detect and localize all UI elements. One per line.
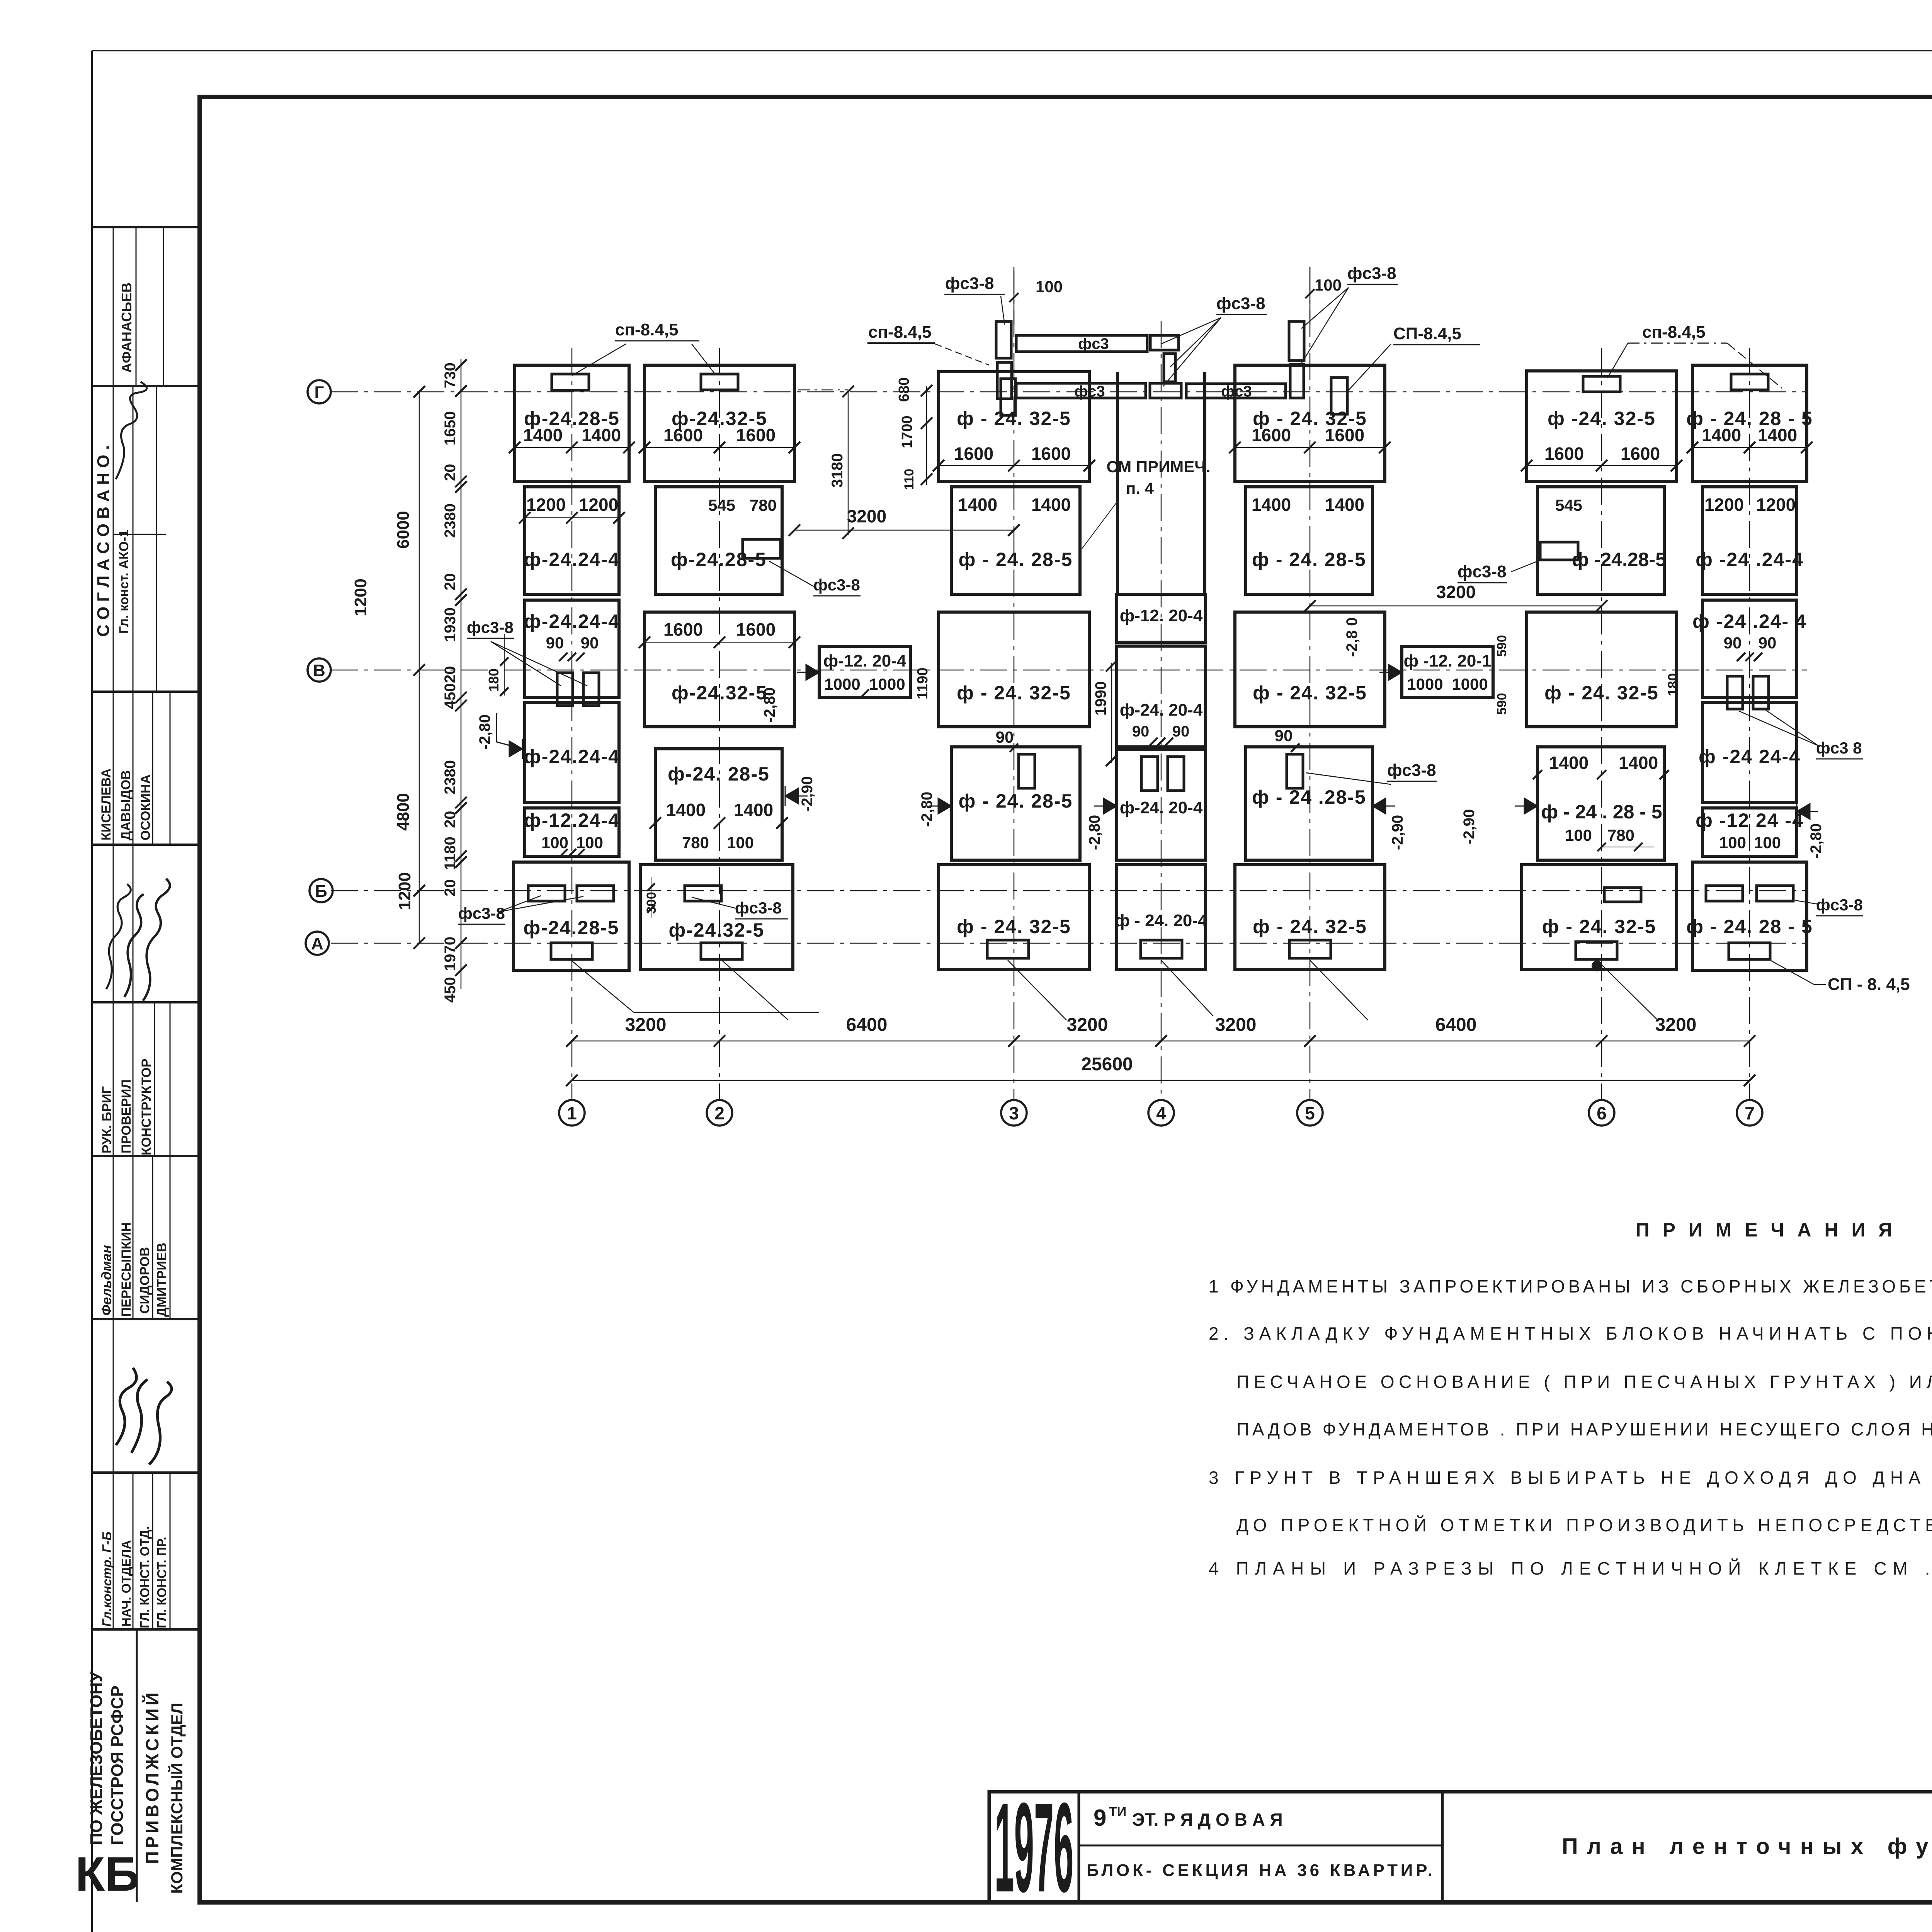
svg-text:1: 1 — [567, 1103, 577, 1123]
svg-text:ф-24.28-5: ф-24.28-5 — [524, 917, 619, 939]
svg-text:1400: 1400 — [666, 800, 706, 820]
foundation block ф-24.32-5 axis3 row Г — [939, 372, 1089, 481]
svg-text:ф - 24. 20-4: ф - 24. 20-4 — [1115, 911, 1207, 930]
leader axis3 bottom insert — [1008, 960, 1066, 1020]
svg-text:-2,80: -2,80 — [1808, 823, 1825, 859]
left strip box4 lines — [113, 692, 114, 845]
left strip signature 1 — [116, 382, 147, 479]
svg-text:1200: 1200 — [579, 495, 618, 515]
foundation block ф-24.24-4 axis1 row4 — [525, 702, 619, 803]
svg-text:1400: 1400 — [1252, 495, 1291, 515]
svg-text:ф - 24. 32-5: ф - 24. 32-5 — [957, 916, 1071, 937]
svg-text:1930: 1930 — [442, 607, 459, 642]
svg-text:АФАНАСЬЕВ: АФАНАСЬЕВ — [119, 282, 134, 373]
axis row line Б — [331, 890, 1807, 891]
axis column circle 7 — [1737, 1100, 1762, 1126]
svg-text:20: 20 — [442, 879, 459, 897]
svg-text:КИСЕЛЕВА: КИСЕЛЕВА — [99, 769, 114, 840]
insert axis1 bottom center — [551, 943, 592, 959]
foundation block ф-24.20-4 axis4 row3 — [1117, 750, 1206, 860]
svg-text:6: 6 — [1597, 1103, 1607, 1123]
bottom chain axes — [572, 1041, 1750, 1042]
svg-text:План ленточных фундамено: План ленточных фундаменов — [1562, 1834, 1932, 1859]
svg-text:ф-24. 28-5: ф-24. 28-5 — [668, 763, 770, 785]
insert ФС3-8 axis4 left — [1141, 757, 1158, 791]
beam фс3 row2 right — [1186, 384, 1286, 398]
title block divider 1976 — [1078, 1792, 1080, 1902]
foundation block ф-24.32-5 axis3 row В — [939, 612, 1089, 727]
svg-text:ф -24. 32-5: ф -24. 32-5 — [1548, 408, 1656, 429]
svg-text:780: 780 — [682, 833, 709, 852]
axis column line 4 — [1161, 321, 1162, 1100]
svg-text:1000: 1000 — [1407, 675, 1443, 693]
svg-text:90: 90 — [1275, 726, 1293, 745]
foundation block ф-24.32-5 axis3 bottom — [939, 865, 1089, 969]
insert ФС3-8 axis6 row2 — [1540, 542, 1578, 560]
insert axis6 bottom center — [1576, 942, 1617, 959]
svg-text:-2,90: -2,90 — [799, 776, 816, 811]
svg-text:ф-24.32-5: ф-24.32-5 — [669, 919, 765, 941]
leader axis6 bottom insert — [1597, 960, 1658, 1020]
svg-text:-2,8 0: -2,8 0 — [1344, 617, 1361, 657]
svg-text:1600: 1600 — [1031, 444, 1071, 464]
svg-text:ДО ПРОЕКТНОЙ ОТМЕТКИ П: ДО ПРОЕКТНОЙ ОТМЕТКИ ПРОИЗВОДИТЬ НЕПОСРЕ… — [1236, 1515, 1932, 1535]
svg-text:590: 590 — [1495, 693, 1509, 715]
foundation block ф-24.32-5 axis5 row Г — [1235, 365, 1385, 481]
svg-text:1200: 1200 — [1704, 495, 1744, 515]
insert СП axis7 top — [1731, 374, 1768, 390]
beam vertical pair axis5 b — [1290, 364, 1304, 398]
left strip box6 lines — [113, 1002, 114, 1156]
foundation block ф-12.20-4 axes5-6 — [1402, 646, 1493, 697]
insert ФС3-8 axis5 row4 — [1287, 754, 1303, 788]
title block divider obj — [1441, 1792, 1444, 1902]
svg-text:ф - 24. 32-5: ф - 24. 32-5 — [1542, 916, 1656, 937]
svg-text:ф - 24. 32-5: ф - 24. 32-5 — [957, 408, 1071, 429]
svg-text:90: 90 — [581, 634, 599, 652]
left strip divider 0 — [92, 226, 200, 228]
level flag axis4 — [1104, 796, 1117, 816]
svg-text:фс3-8: фс3-8 — [1387, 761, 1436, 780]
svg-text:1600: 1600 — [663, 619, 703, 639]
insert axis4 bottom center — [1141, 940, 1182, 958]
svg-text:ф-24.24-4: ф-24.24-4 — [524, 746, 620, 767]
svg-text:-2,80: -2,80 — [761, 687, 778, 723]
left strip signature cursive 2 — [124, 894, 144, 997]
foundation block ф-24.28-5 axis6 row2 — [1537, 487, 1664, 594]
svg-text:Фельдман: Фельдман — [99, 1245, 114, 1316]
axis row line В — [331, 670, 1807, 671]
svg-text:В: В — [313, 661, 325, 680]
svg-text:90: 90 — [1172, 723, 1190, 740]
insert axis1 bottom left — [528, 886, 565, 901]
foundation block ф-12.24-4 axis7 row5 — [1702, 808, 1797, 856]
svg-text:4: 4 — [1156, 1103, 1166, 1123]
dim ticks axis4 row2 — [1149, 738, 1158, 746]
svg-text:1990: 1990 — [1092, 681, 1109, 716]
svg-text:1400: 1400 — [1702, 425, 1741, 445]
left strip divider 4 — [92, 1001, 200, 1003]
foundation block ф-24.28-5 axis2 row4 — [655, 749, 782, 860]
foundation block ф-24.28-5 axis5 row4 — [1246, 747, 1372, 860]
svg-text:1200: 1200 — [526, 495, 566, 515]
svg-text:1000: 1000 — [824, 675, 860, 693]
svg-text:1600: 1600 — [736, 619, 776, 639]
dim ticks axis5 Г — [1229, 442, 1241, 453]
svg-text:1400: 1400 — [1758, 425, 1797, 445]
svg-text:110: 110 — [902, 469, 917, 490]
insert ФС3-8 axis3 row4 — [1019, 754, 1035, 788]
svg-text:2380: 2380 — [442, 760, 459, 794]
insert СП axis5 B1 — [1331, 378, 1347, 414]
svg-text:9: 9 — [1094, 1805, 1106, 1831]
foundation block ф-24.32-5 axis2 row В — [645, 612, 794, 727]
left strip box7 lines — [113, 1156, 114, 1319]
svg-text:3200: 3200 — [1215, 1015, 1257, 1035]
left strip divider 6 — [92, 1318, 200, 1320]
svg-text:3200: 3200 — [1436, 582, 1476, 602]
dim ticks axis1 row5 — [559, 849, 568, 857]
svg-text:БЛОК- СЕКЦИЯ НА 36 КВАРТИР.: БЛОК- СЕКЦИЯ НА 36 КВАРТИР. — [1087, 1861, 1432, 1880]
svg-text:1400: 1400 — [523, 425, 563, 445]
left strip signature cursive 3 — [143, 879, 170, 1001]
axis row line А — [331, 943, 1807, 944]
svg-text:ТИ: ТИ — [1109, 1804, 1126, 1819]
foundation block ф-24.32-5 axis6 bottom — [1522, 865, 1677, 969]
svg-text:А: А — [311, 934, 323, 953]
dim 3180 axis2-3 — [848, 390, 849, 535]
foundation block ф-24.28-5 axis6 row4 — [1537, 747, 1664, 860]
svg-text:3200: 3200 — [1655, 1015, 1697, 1035]
svg-text:730: 730 — [442, 362, 459, 388]
svg-text:1600: 1600 — [1621, 444, 1660, 464]
leader axis4 bottom insert — [1161, 960, 1213, 1016]
svg-text:Г: Г — [315, 383, 324, 402]
foundation block ф-24.28-5 axis3 row4 — [951, 747, 1080, 860]
title block obj row line — [1079, 1845, 1442, 1847]
svg-text:100: 100 — [1719, 833, 1746, 852]
svg-text:6400: 6400 — [846, 1015, 888, 1035]
left strip box2 lines — [113, 227, 114, 386]
svg-text:ф-12.24-4: ф-12.24-4 — [524, 810, 620, 831]
left outer chain — [419, 392, 420, 943]
svg-text:ф -24 24-4: ф -24 24-4 — [1699, 746, 1801, 767]
foundation block ф-24.32-5 axis5 bottom — [1235, 865, 1385, 969]
svg-text:90: 90 — [1132, 723, 1150, 740]
axis row circle А — [306, 932, 329, 955]
svg-text:ф - 24 .28-5: ф - 24 .28-5 — [1252, 786, 1366, 808]
leader axis5 bottom insert — [1310, 960, 1368, 1020]
left strip box10 divider — [136, 1629, 138, 1902]
svg-text:1600: 1600 — [1325, 425, 1364, 445]
svg-text:1700: 1700 — [899, 415, 915, 448]
svg-text:СИДОРОВ: СИДОРОВ — [138, 1247, 152, 1314]
foundation block ф-24.28-5 axis1 row Г — [515, 365, 629, 481]
svg-text:фс3-8: фс3-8 — [458, 904, 505, 922]
svg-text:ф -12. 20-1: ф -12. 20-1 — [1404, 651, 1492, 670]
svg-text:780: 780 — [750, 496, 777, 514]
left strip box9 lines — [113, 1473, 114, 1629]
foundation block ф-12.20-4 axes2-3 — [819, 646, 910, 697]
svg-text:ф-24.32-5: ф-24.32-5 — [672, 682, 767, 704]
svg-text:1400: 1400 — [582, 425, 621, 445]
svg-text:780: 780 — [1607, 826, 1634, 844]
svg-text:П Р И М Е Ч А Н И Я: П Р И М Е Ч А Н И Я — [1636, 1219, 1896, 1241]
beam фс3 row2 left — [1016, 383, 1146, 398]
svg-text:5: 5 — [1305, 1103, 1315, 1123]
insert ФС3-8 axis4 right — [1168, 757, 1184, 791]
svg-text:фс3-8: фс3-8 — [1216, 294, 1265, 313]
insert axis7 bottom left — [1706, 886, 1743, 901]
svg-text:1200: 1200 — [395, 872, 414, 910]
svg-text:90: 90 — [546, 634, 564, 652]
svg-text:2. ЗАКЛАДКУ ФУНДАМЕНТНЫХ: 2. ЗАКЛАДКУ ФУНДАМЕНТНЫХ БЛОКОВ НАЧИНАТЬ… — [1209, 1323, 1932, 1344]
axis column circle 6 — [1589, 1100, 1614, 1126]
left strip signature 3 — [116, 1368, 172, 1464]
insert СП axis6 top — [1583, 376, 1620, 392]
left strip divider 5 — [92, 1155, 200, 1157]
dim ticks ф-12.20-4 — [861, 689, 869, 698]
svg-text:ГОССТРОЯ РСФСР: ГОССТРОЯ РСФСР — [108, 1685, 127, 1845]
svg-text:п. 4: п. 4 — [1126, 479, 1154, 497]
svg-text:1400: 1400 — [1031, 495, 1071, 515]
foundation block ф-24.24-4 axis7 row2 — [1702, 487, 1797, 594]
foundation block ф-24.24-4 axis7 row3 — [1702, 600, 1797, 697]
foundation block ф-24.24-4 axis7 row4 — [1702, 702, 1797, 803]
foundation block ф-24.32-5 axis6 row В — [1527, 612, 1677, 727]
insert СП axis3 B1 — [1001, 379, 1015, 415]
svg-text:20: 20 — [442, 464, 459, 481]
insert axis2 bottom center — [701, 943, 742, 959]
insert axis3 bottom center — [987, 940, 1029, 958]
svg-text:450: 450 — [442, 977, 459, 1003]
svg-text:ф-24.24-4: ф-24.24-4 — [524, 611, 620, 632]
svg-text:ПЕРЕСЫПКИН: ПЕРЕСЫПКИН — [119, 1223, 134, 1317]
svg-text:3200: 3200 — [847, 506, 886, 526]
svg-text:ПЕСЧАНОЕ ОСНОВАНИЕ ( ПРИ: ПЕСЧАНОЕ ОСНОВАНИЕ ( ПРИ ПЕСЧАНЫХ ГРУНТА… — [1236, 1372, 1932, 1392]
left strip box5 lines — [113, 845, 114, 1002]
axis column line 7 — [1749, 348, 1750, 1100]
svg-text:100: 100 — [541, 833, 568, 852]
svg-text:1400: 1400 — [734, 800, 773, 820]
insert axis7 bottom right — [1757, 886, 1793, 901]
sheet edge top line — [92, 50, 1932, 51]
svg-text:1600: 1600 — [663, 425, 703, 445]
svg-text:100: 100 — [727, 833, 754, 852]
svg-text:180: 180 — [486, 668, 502, 692]
svg-text:ф - 24. 28-5: ф - 24. 28-5 — [959, 549, 1073, 570]
foundation block ф-24.28-5 axis7 bottom — [1692, 862, 1807, 970]
svg-text:сп-8.4,5: сп-8.4,5 — [1642, 323, 1706, 342]
beam vertical pair axis5 a — [1289, 321, 1304, 361]
svg-text:20: 20 — [442, 811, 459, 828]
svg-text:РУК. БРИГ: РУК. БРИГ — [100, 1086, 114, 1153]
svg-text:ГЛ. КОНСТ. ОТД.: ГЛ. КОНСТ. ОТД. — [138, 1526, 152, 1628]
svg-text:545: 545 — [708, 496, 735, 514]
svg-text:1000: 1000 — [1452, 675, 1488, 693]
svg-text:КБ: КБ — [75, 1847, 139, 1901]
sheet edge left line — [91, 51, 93, 1932]
left strip box3 lines — [113, 386, 114, 692]
foundation block ф-12.20-4 axis4 — [1117, 594, 1206, 642]
insert ФС3-8 axis1 right — [583, 673, 599, 706]
svg-text:ОСОКИНА: ОСОКИНА — [138, 774, 153, 840]
dim ticks axis1 row2 — [519, 512, 531, 524]
left strip divider 7 — [92, 1471, 200, 1474]
beam small vertical middle — [1164, 354, 1175, 382]
svg-text:180: 180 — [1665, 673, 1681, 696]
svg-text:ф - 24. 32-5: ф - 24. 32-5 — [1544, 682, 1659, 704]
foundation block ф-24.32-5 axis2 bottom — [640, 865, 793, 969]
dim ticks ф-12.20-4 b — [1389, 662, 1402, 682]
axis column circle 4 — [1148, 1100, 1174, 1126]
svg-text:ф - 24. 28 - 5: ф - 24. 28 - 5 — [1686, 916, 1813, 937]
foundation block ф-24.20-4 axis4 bottom — [1117, 865, 1206, 969]
bottom chain total — [572, 1080, 1750, 1081]
svg-text:4800: 4800 — [394, 793, 413, 831]
svg-text:3: 3 — [1009, 1103, 1019, 1123]
beam vertical pair axis3 b — [997, 362, 1012, 399]
stairwell strip lines — [1116, 372, 1119, 594]
svg-text:100: 100 — [576, 833, 603, 852]
insert ФС3-8 axis7 left — [1727, 676, 1743, 709]
svg-text:1650: 1650 — [442, 411, 459, 446]
dim ticks axis2 В — [639, 636, 650, 648]
svg-text:450: 450 — [442, 683, 459, 709]
dim ticks axis1 Г — [509, 442, 520, 453]
axis row circle В — [308, 658, 331, 682]
svg-text:фс3-8: фс3-8 — [813, 576, 860, 594]
svg-text:545: 545 — [1555, 496, 1582, 514]
insert ФС3-8 axis1 left — [557, 673, 573, 706]
svg-text:1600: 1600 — [954, 444, 993, 464]
title block outline — [989, 1792, 1932, 1902]
beam short row1 — [1150, 335, 1179, 350]
axis column circle 3 — [1001, 1100, 1027, 1126]
svg-text:1970: 1970 — [442, 937, 459, 971]
svg-text:СП-8.4,5: СП-8.4,5 — [1393, 324, 1461, 343]
svg-text:ГЛ. КОНСТ. ПР.: ГЛ. КОНСТ. ПР. — [155, 1537, 169, 1628]
svg-text:1976: 1976 — [995, 1776, 1074, 1918]
beam фс3 row1 — [1016, 335, 1147, 352]
svg-text:6000: 6000 — [394, 511, 413, 549]
left strip divider 3 — [92, 844, 200, 846]
svg-text:ф - 24. 28-5: ф - 24. 28-5 — [1252, 549, 1366, 570]
foundation block ф-24.28-5 axis2 row2 — [655, 487, 782, 594]
svg-text:90: 90 — [1724, 634, 1742, 652]
svg-text:КОМПЛЕКСНЫЙ ОТДЕЛ: КОМПЛЕКСНЫЙ ОТДЕЛ — [167, 1703, 186, 1894]
insert СП axis2 top — [701, 374, 738, 390]
insert axis1 bottom right — [577, 886, 614, 901]
svg-text:-2,80: -2,80 — [476, 714, 493, 750]
axis row circle Б — [310, 879, 333, 902]
axis row circle Г — [308, 380, 331, 403]
svg-text:2380: 2380 — [442, 503, 459, 538]
dim ticks axis6 Г — [1521, 460, 1532, 471]
svg-text:3200: 3200 — [1067, 1015, 1108, 1035]
svg-text:ф - 24. 28-5: ф - 24. 28-5 — [959, 790, 1073, 812]
svg-text:ф - 24 . 28 - 5: ф - 24 . 28 - 5 — [1541, 801, 1662, 823]
svg-text:фс3-8: фс3-8 — [735, 899, 782, 917]
insert ФС3-8 axis2 row2 — [743, 539, 781, 558]
svg-text:100: 100 — [1036, 277, 1063, 296]
svg-text:ф-24. 20-4: ф-24. 20-4 — [1120, 798, 1203, 817]
svg-text:ф -24 .24-4: ф -24 .24-4 — [1696, 549, 1804, 570]
axis column line 3 — [1014, 267, 1015, 1100]
beam vertical pair axis3 a — [996, 321, 1011, 358]
insert ФС3-8 axis7 right — [1753, 676, 1769, 709]
svg-text:2: 2 — [714, 1103, 724, 1123]
svg-text:ф - 24. 32-5: ф - 24. 32-5 — [1253, 682, 1367, 704]
svg-text:100: 100 — [1565, 826, 1592, 844]
leader axis1 bottom insert — [571, 960, 634, 1012]
svg-text:фс3: фс3 — [1074, 383, 1105, 400]
foundation block ф-24.24-4 axis1 row2 — [525, 487, 619, 594]
svg-text:6400: 6400 — [1435, 1015, 1477, 1035]
svg-text:7: 7 — [1745, 1103, 1755, 1123]
svg-text:СП - 8. 4,5: СП - 8. 4,5 — [1828, 975, 1910, 994]
svg-text:90: 90 — [996, 728, 1014, 746]
axis column circle 5 — [1297, 1100, 1323, 1126]
axis column line 5 — [1310, 267, 1311, 1100]
dim ticks axis1 row3 — [559, 653, 568, 661]
svg-text:ф-24.24-4: ф-24.24-4 — [524, 549, 620, 570]
insert СП axis1 top — [552, 374, 589, 390]
svg-text:1400: 1400 — [1619, 753, 1658, 773]
foundation block ф-24.24-4 axis1 row3 — [525, 600, 619, 697]
dim ticks axis2 Г — [639, 442, 650, 453]
svg-text:фс3-8: фс3-8 — [1816, 896, 1863, 914]
axis column line 6 — [1601, 348, 1602, 1100]
insert axis2 bottom top — [685, 886, 721, 901]
foundation block ф-24.20-4 axis4 row2 — [1117, 646, 1206, 747]
svg-text:1190: 1190 — [915, 668, 931, 699]
svg-text:1000: 1000 — [869, 675, 905, 693]
svg-text:1600: 1600 — [1544, 444, 1584, 464]
dim chain 680-1700 axis3 — [926, 386, 927, 485]
svg-text:С О Г Л А С О В А Н О .: С О Г Л А С О В А Н О . — [94, 445, 113, 637]
svg-text:ЭТ. Р Я Д О В А Я: ЭТ. Р Я Д О В А Я — [1132, 1810, 1283, 1830]
svg-text:ф-24. 20-4: ф-24. 20-4 — [1120, 701, 1203, 719]
svg-text:Б: Б — [315, 882, 327, 901]
black dot axis6 bottom — [1592, 961, 1602, 971]
svg-text:1600: 1600 — [736, 425, 776, 445]
svg-text:фс3-8: фс3-8 — [1458, 562, 1507, 581]
foundation block ф-24.28-5 axis5 row2 — [1246, 487, 1372, 594]
svg-text:90: 90 — [1759, 634, 1777, 652]
axis row line Г — [331, 391, 1807, 393]
insert axis6 bottom top — [1604, 888, 1641, 902]
svg-text:25600: 25600 — [1081, 1054, 1133, 1075]
dim ticks axis3 Г — [933, 460, 944, 471]
svg-text:Гл.констр. Г-Б: Гл.констр. Г-Б — [100, 1532, 114, 1627]
svg-text:100: 100 — [1315, 276, 1342, 294]
left inner chain — [461, 359, 462, 989]
svg-text:ф -12 24 -4: ф -12 24 -4 — [1696, 810, 1804, 831]
svg-text:КОНСТРУКТОР: КОНСТРУКТОР — [139, 1059, 154, 1155]
dim ticks axis2 row4 — [650, 817, 661, 829]
svg-text:Гл. конст. АКО-1: Гл. конст. АКО-1 — [117, 530, 131, 634]
svg-text:20: 20 — [442, 666, 459, 684]
beam short row2 — [1150, 383, 1181, 398]
svg-text:ф -24 .24- 4: ф -24 .24- 4 — [1692, 611, 1807, 632]
svg-text:ф-12. 20-4: ф-12. 20-4 — [823, 651, 906, 670]
svg-text:-2,90: -2,90 — [1389, 815, 1406, 850]
svg-text:фс3-8: фс3-8 — [945, 274, 994, 293]
axis column circle 2 — [707, 1100, 732, 1126]
svg-text:680: 680 — [896, 378, 912, 402]
svg-text:-2,80: -2,80 — [918, 792, 935, 827]
